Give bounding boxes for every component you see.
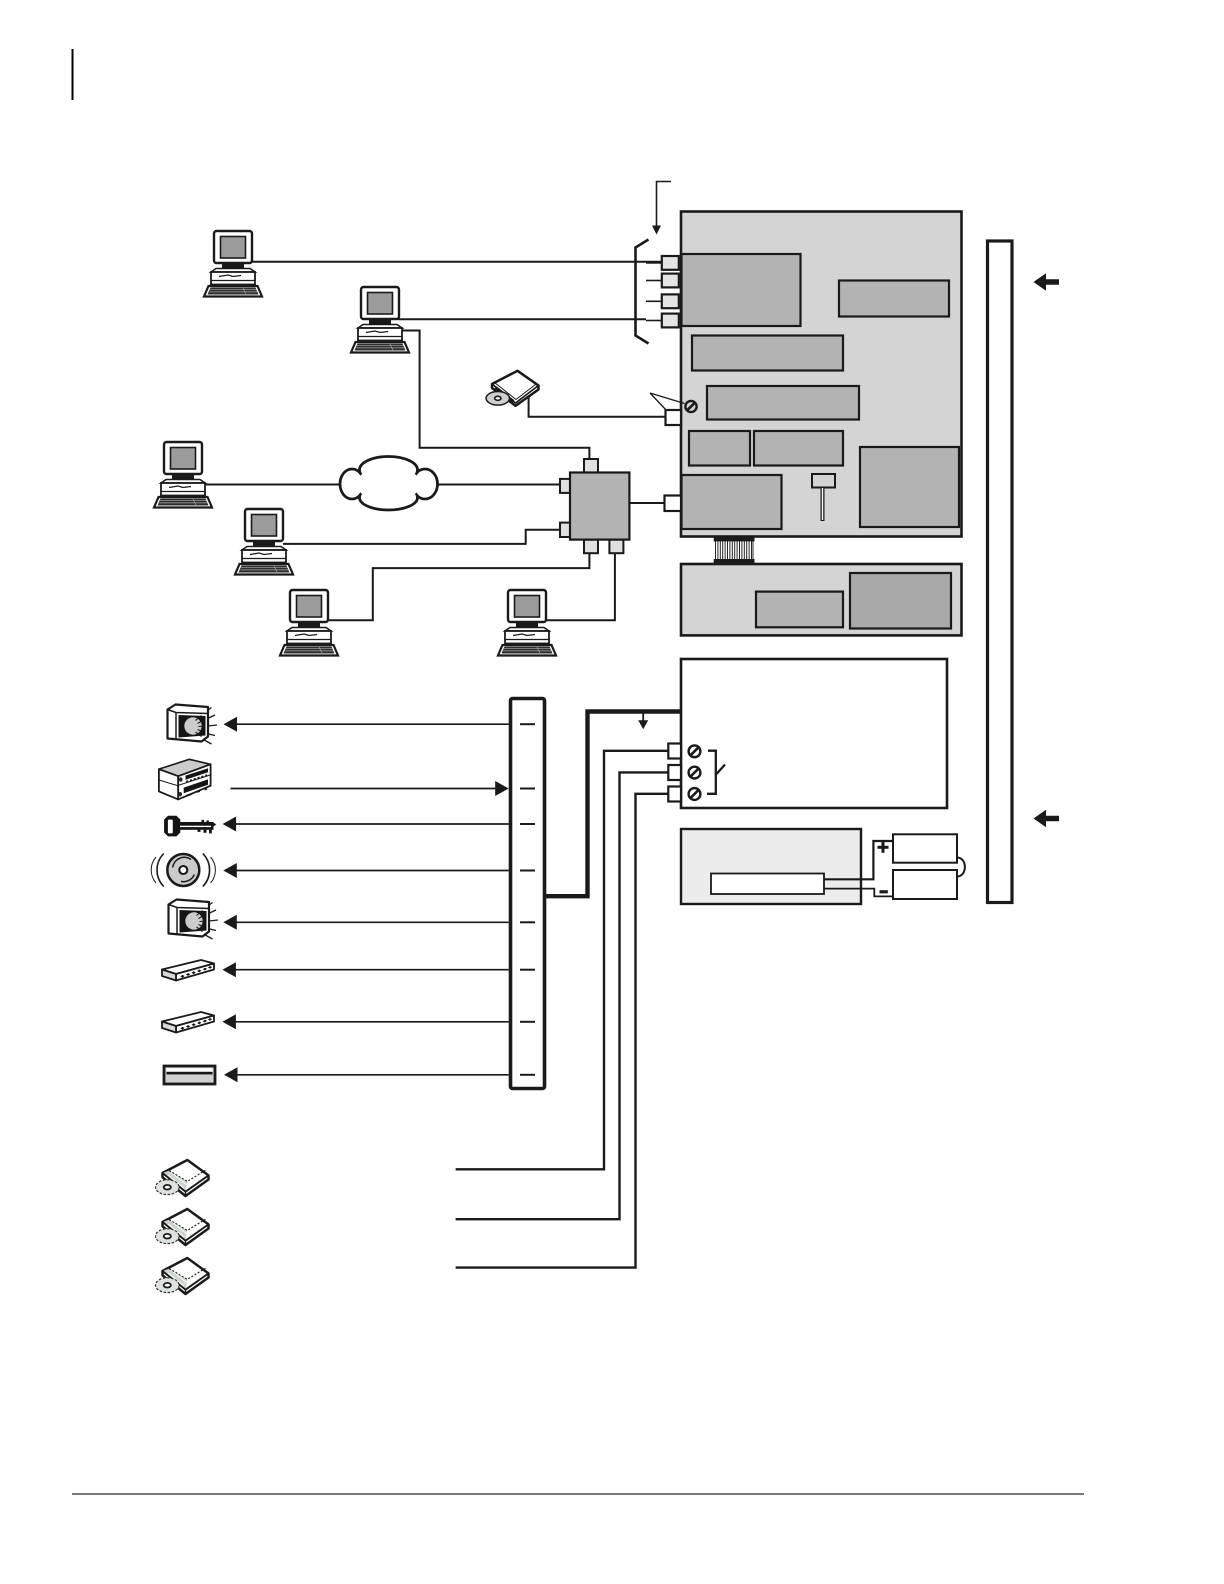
no-connect symbol <box>685 401 696 412</box>
card module A4 <box>707 386 859 420</box>
wire cloud to hub <box>437 484 560 486</box>
wire pc1 to tab1 <box>251 261 662 263</box>
stereo amplifier <box>159 759 211 799</box>
relay wire 3 <box>456 794 669 1268</box>
power supply box <box>681 829 861 904</box>
tab stubs <box>646 263 662 321</box>
door unit 2 <box>162 1012 214 1033</box>
connector tab T4 <box>662 314 679 328</box>
minus sign <box>880 890 888 893</box>
strobe light 2 <box>169 900 219 940</box>
relay tab3 <box>668 787 681 802</box>
wire pc4 to hub <box>283 530 560 544</box>
strobe light 1 <box>168 705 218 745</box>
row3 arrow wire <box>233 823 509 825</box>
top pointer <box>657 182 672 227</box>
wire pc5 to hub <box>329 553 589 620</box>
big arrow 2 <box>1034 810 1060 828</box>
bottom drive 1 <box>156 1160 209 1196</box>
wire pc3 to cloud <box>203 484 341 486</box>
row8 arrow wire <box>234 1074 509 1076</box>
connector C1 <box>666 410 682 425</box>
bottom drive 2 <box>156 1209 209 1245</box>
bell <box>151 854 215 887</box>
wire hub to C2 <box>629 502 664 504</box>
thick audio wire <box>546 712 681 897</box>
down arrow on thick wire <box>642 713 644 721</box>
connector C2 <box>665 496 682 512</box>
relay tab1 <box>668 744 681 759</box>
pc5 <box>280 590 338 656</box>
screw S2 <box>689 767 701 779</box>
bottom drive 3 <box>156 1258 209 1294</box>
cd media player <box>486 371 538 406</box>
door unit 1 <box>162 960 214 981</box>
relay box <box>681 659 947 808</box>
card module A6 <box>754 431 843 466</box>
card module A3 <box>692 336 843 371</box>
battery 1 <box>893 834 957 862</box>
relay tab2 <box>668 765 681 780</box>
callout flag <box>650 393 685 412</box>
terminal strip <box>511 699 545 1089</box>
row7 arrow wire <box>233 1021 509 1023</box>
plus sign <box>878 842 889 853</box>
relay wire 2 <box>456 772 669 1219</box>
wire pc2 down to hub <box>400 331 589 462</box>
ribbon cable <box>714 537 755 564</box>
screw S3 <box>689 788 701 800</box>
key <box>164 816 216 837</box>
card module A5 <box>689 431 750 466</box>
expansion module B2 <box>850 573 951 629</box>
big arrow 1 <box>1034 273 1060 291</box>
connector tab T1 <box>662 256 679 270</box>
expansion box <box>681 564 962 635</box>
wall channel bar <box>988 241 1013 903</box>
battery link arc <box>957 858 965 877</box>
card module A2 <box>839 281 949 317</box>
card module A7 <box>860 447 959 527</box>
pc2 <box>351 287 409 353</box>
connector tab T3 <box>662 294 679 308</box>
screw S1 <box>689 745 701 757</box>
relay contact symbol <box>707 751 725 794</box>
wire pc2 to tab4 <box>398 318 646 320</box>
row2 wire arrow into strip <box>231 788 498 790</box>
connector tab T2 <box>662 274 679 288</box>
main cabinet box <box>681 212 962 537</box>
expansion module B1 <box>756 592 843 628</box>
footer rule <box>72 1493 1084 1495</box>
hub <box>584 459 598 473</box>
pc6 <box>498 590 556 656</box>
pc4 <box>235 509 293 575</box>
row4 arrow wire <box>234 870 509 872</box>
battery 2 <box>893 870 957 899</box>
wire pc6 to hub <box>546 553 615 620</box>
row5 arrow wire <box>234 921 509 923</box>
battery wire + <box>824 841 893 879</box>
door strike bar <box>164 1066 215 1084</box>
row6 arrow wire <box>233 969 509 971</box>
pc1 <box>204 231 262 297</box>
page margin tick <box>72 49 74 100</box>
card module A1 <box>682 254 801 326</box>
fanout bracket <box>636 240 649 344</box>
wire cd drive to C1 <box>529 393 666 417</box>
pc3 <box>154 442 212 508</box>
cloud <box>340 457 438 511</box>
card module A8 <box>682 475 782 529</box>
row1 arrow wire <box>234 723 509 725</box>
relay wire 1 <box>456 751 669 1170</box>
battery wire - <box>824 889 893 897</box>
jumper strap <box>812 474 835 488</box>
psu inner module <box>711 874 824 895</box>
